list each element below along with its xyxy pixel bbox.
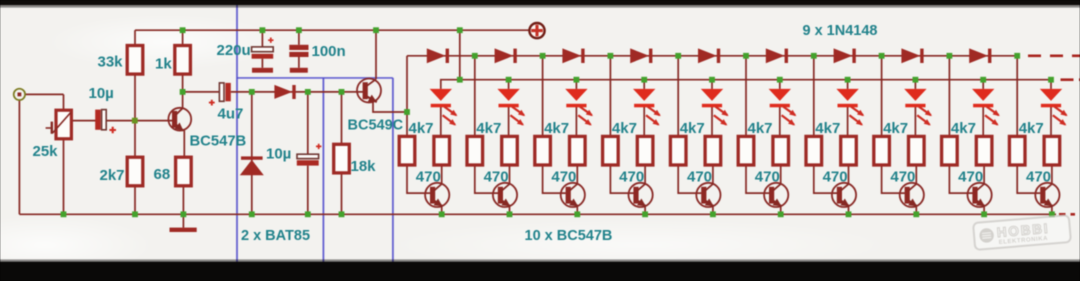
wire diode tap to R 4k7-3 [542, 56, 544, 136]
LED10 [1040, 89, 1068, 126]
junction rail 220u [260, 27, 266, 33]
svg-text:4k7: 4k7 [748, 120, 773, 137]
resistor R 470-8 [909, 136, 925, 165]
junction rail emitter 4 [642, 211, 648, 217]
svg-text:BC547B: BC547B [190, 133, 247, 149]
junction diode tap 9 [947, 53, 953, 59]
resistor R 470-10 [1044, 136, 1060, 165]
wire LED-1 cathode to R 470-1 [440, 107, 442, 137]
wire diode tap to R 4k7-10 [1016, 56, 1018, 136]
junction rail emitter 9 [981, 211, 987, 217]
ground symbol [170, 214, 197, 232]
wire R 4k7-8 to base Q8 [882, 165, 905, 193]
resistor R 470-4 [637, 136, 653, 165]
svg-text:2k7: 2k7 [100, 167, 125, 184]
svg-text:470: 470 [823, 169, 848, 186]
potentiometer 25k [46, 110, 72, 139]
junction diode tap 10 [1014, 53, 1020, 59]
resistor R 4k7-7 [806, 136, 822, 165]
bottom ground rail [19, 213, 1056, 215]
junction rail pot [61, 211, 67, 217]
junction diode tap 3 [540, 53, 546, 59]
transistor Q9 BC547B stage 7 [832, 183, 856, 207]
resistor R 4k7-10 [1009, 136, 1025, 165]
resistor R 470-9 [976, 136, 992, 165]
wire LED rail stub 2 [508, 80, 510, 89]
wire R 4k7-9 to base Q9 [949, 165, 972, 193]
svg-text:4k7: 4k7 [612, 120, 637, 137]
svg-text:4k7: 4k7 [680, 120, 705, 137]
svg-text:2 x BAT85: 2 x BAT85 [241, 228, 310, 244]
wire to C 10u-2 top [307, 92, 309, 154]
wire 33k to base node to 2k7 [134, 74, 136, 158]
junction LED rail 9 [980, 77, 986, 83]
wire 18k to rail [341, 173, 343, 214]
watermark HOBBI Elektronika [973, 215, 1071, 250]
junction LED rail 7 [845, 77, 851, 83]
wire R 470-10 to collector Q10 [1051, 165, 1053, 184]
transistor Q1 BC547B input [168, 108, 191, 131]
transistor Q7 BC547B stage 5 [696, 183, 720, 207]
svg-text:4k7: 4k7 [476, 120, 501, 137]
wire emitter Q3 to rail [576, 206, 578, 214]
wire LED-5 cathode to R 470-5 [711, 107, 713, 137]
wire R 470-1 to collector Q1 [441, 165, 443, 184]
resistor 2k7 [127, 157, 143, 186]
capacitor C 10u second [297, 144, 322, 166]
wire R 4k7-2 to base Q2 [475, 165, 498, 193]
junction emitter BC549C [404, 109, 410, 115]
transistor Q3 BC547B stage 1 [425, 183, 449, 207]
transistor Q12 BC547B stage 10 [1035, 183, 1059, 207]
capacitor C 220u [252, 38, 274, 59]
resistor 33k [127, 46, 143, 75]
resistor R 4k7-4 [603, 136, 619, 165]
svg-text:9 x 1N4148: 9 x 1N4148 [803, 23, 878, 39]
wire R 470-3 to collector Q3 [576, 165, 578, 184]
junction LED rail 10 [1048, 77, 1054, 83]
wire LED-9 cathode to R 470-9 [982, 107, 984, 137]
svg-text:BC549C: BC549C [348, 118, 404, 134]
wire R 4k7-10 to base Q10 [1017, 165, 1040, 193]
wire diode tap to R 4k7-5 [677, 56, 679, 136]
junction LED rail 4 [641, 77, 647, 83]
diode D9 1N4148 [969, 48, 991, 63]
junction LED rail 6 [777, 77, 783, 83]
svg-text:10 x BC547B: 10 x BC547B [525, 228, 613, 244]
resistor 18k [334, 144, 350, 173]
dashes LED rail continuation [1061, 78, 1080, 81]
dashes diode row continuation [1028, 54, 1080, 57]
junction rail emitter 2 [507, 211, 513, 217]
wire LED-3 cathode to R 470-3 [575, 107, 577, 137]
wire R 4k7-7 to base Q7 [814, 165, 837, 193]
bottom black bar [0, 262, 1080, 281]
wire emitter Q1 to rail [441, 206, 443, 214]
transistor Q5 BC547B stage 3 [561, 183, 585, 207]
diode D4 1N4148 [630, 48, 652, 63]
transistor U2 BC549C driver [357, 79, 381, 103]
svg-text:4k7: 4k7 [1019, 120, 1044, 137]
wire rail to C 220u [261, 30, 263, 47]
transistor Q10 BC547B stage 8 [900, 183, 924, 207]
resistor R 4k7-6 [738, 136, 754, 165]
wire LED-4 cathode to R 470-4 [643, 107, 645, 137]
junction diode tap 2 [472, 53, 478, 59]
diode D7 1N4148 [834, 48, 856, 63]
wire to R 18k [341, 92, 343, 144]
selection box line vertical right [392, 78, 394, 262]
wire LED rail stub 7 [847, 80, 849, 89]
junction 18k node [339, 89, 345, 95]
junction rail 2k7 [132, 211, 138, 217]
junction rail 100n [296, 27, 302, 33]
LED1 [430, 89, 458, 126]
wire R 4k7-4 to base Q4 [610, 165, 633, 193]
junction rail 10u2 [305, 211, 311, 217]
resistor R 4k7-1 [399, 136, 415, 165]
LED6 [769, 89, 797, 126]
wire input to pot top [25, 93, 64, 95]
LED2 [497, 89, 525, 126]
capacitor C 10u input [95, 110, 116, 134]
wire LED rail stub 9 [982, 80, 984, 89]
junction rail emitter 6 [778, 211, 784, 217]
wire R 470-9 to collector Q9 [983, 165, 985, 184]
svg-text:470: 470 [890, 169, 915, 186]
wire R 4k7-5 to base Q5 [678, 165, 701, 193]
diode chain row wire [407, 55, 1017, 57]
wire 2k7 to rail [134, 185, 136, 214]
svg-text:4k7: 4k7 [951, 120, 976, 137]
transistor Q8 BC547B stage 6 [764, 183, 788, 207]
selection box line horizontal [237, 77, 393, 79]
LED7 [836, 89, 864, 126]
selection box line vertical middle [322, 78, 324, 262]
junction rail 18k [339, 211, 345, 217]
resistor R 470-5 [705, 136, 721, 165]
resistor R 470-3 [570, 136, 586, 165]
svg-text:68: 68 [154, 166, 171, 183]
wire diode tap to R 4k7-9 [948, 56, 950, 136]
wire 10u to base BC547B [106, 120, 173, 122]
junction LED rail feed [457, 77, 463, 83]
svg-text:33k: 33k [98, 54, 124, 71]
wire LED rail stub 6 [779, 80, 781, 89]
wire input ground down [18, 100, 20, 215]
wire collector node to C 4u7 [183, 91, 220, 93]
wire emitter Q9 to rail [983, 206, 985, 214]
diode D6 1N4148 [766, 48, 788, 63]
wire C 10u-2 to rail [307, 166, 309, 215]
junction rail emitter 5 [710, 211, 716, 217]
wire pot bottom to rail [63, 139, 65, 215]
transistor Q4 BC547B stage 2 [493, 183, 517, 207]
wire rail to C 100n [298, 30, 300, 45]
wire LED-2 cathode to R 470-2 [508, 107, 510, 137]
diode D8 1N4148 [901, 48, 923, 63]
capacitor C 100n [289, 45, 308, 57]
junction LED rail 2 [506, 77, 512, 83]
resistor R 4k7-9 [942, 136, 958, 165]
LED9 [972, 89, 1000, 126]
junction diode tap 4 [608, 53, 614, 59]
svg-text:4u7: 4u7 [218, 105, 244, 122]
wire R 470-2 to collector Q2 [509, 165, 511, 184]
svg-text:1k: 1k [155, 56, 172, 73]
svg-text:4k7: 4k7 [883, 120, 908, 137]
supply terminal + [529, 23, 544, 38]
wire diode tap to R 4k7-8 [881, 56, 883, 136]
wire LED rail stub 5 [711, 80, 713, 89]
junction diode tap 7 [811, 53, 817, 59]
svg-text:470: 470 [958, 169, 983, 186]
diode D1 1N4148 [427, 48, 449, 63]
wire emitter Q4 to rail [644, 206, 646, 214]
wire R 4k7-1 to base Q1 [407, 165, 430, 193]
svg-text:470: 470 [687, 169, 712, 186]
resistor R 4k7-3 [535, 136, 551, 165]
diode D2 1N4148 [495, 48, 517, 63]
junction rail emitter 8 [913, 211, 919, 217]
diode D3 1N4148 [562, 48, 584, 63]
svg-text:25k: 25k [33, 143, 59, 160]
wire LED rail stub 4 [643, 80, 645, 89]
wire R 470-4 to collector Q4 [644, 165, 646, 184]
wire emitter Q6 to rail [780, 206, 782, 214]
junction LED rail 3 [574, 77, 580, 83]
resistor R 470-1 [434, 136, 450, 165]
LED anode rail [441, 80, 1051, 89]
svg-text:470: 470 [619, 169, 644, 186]
junction rail emitter 7 [846, 211, 852, 217]
wire R 470-7 to collector Q7 [848, 165, 850, 184]
wire pot top stub [63, 94, 65, 110]
resistor R 4k7-5 [670, 136, 686, 165]
resistor 1k [175, 46, 191, 75]
wire emitter to 68 [183, 130, 185, 158]
wire LED rail stub 8 [914, 80, 916, 89]
svg-text:470: 470 [551, 169, 576, 186]
wire diode tap to R 4k7-6 [745, 56, 747, 136]
junction BAT85 node [249, 89, 255, 95]
ground bar under C 100n [290, 68, 308, 73]
svg-text:470: 470 [1026, 169, 1051, 186]
wire BC549C emitter to node [373, 102, 407, 112]
junction rail 1k [180, 27, 186, 33]
transistor Q6 BC547B stage 4 [629, 183, 653, 207]
junction rail emitter 3 [574, 211, 580, 217]
junction rail BAT85 [249, 211, 255, 217]
wire R 4k7-6 to base Q6 [746, 165, 769, 193]
wire emitter Q10 to rail [1051, 206, 1053, 214]
junction rail LED feed [457, 27, 463, 33]
wire BAT85 branch vertical [251, 92, 253, 214]
wire diode tap to R 4k7-4 [609, 56, 611, 136]
svg-text:4k7: 4k7 [409, 120, 434, 137]
transistor Q11 BC547B stage 9 [968, 183, 992, 207]
wire 4u7 to BC549C base [231, 91, 363, 93]
svg-text:470: 470 [484, 169, 509, 186]
capacitor C 4u7 [209, 83, 231, 106]
junction rail gnd [181, 211, 187, 217]
wire emitter Q7 to rail [848, 206, 850, 214]
junction rail emitter 10 [1049, 211, 1055, 217]
input terminal [14, 89, 25, 100]
resistor R 470-2 [502, 136, 518, 165]
resistor R 470-6 [773, 136, 789, 165]
wire LED rail stub 10 [1050, 80, 1052, 89]
top supply rail [135, 29, 529, 31]
wire R 470-5 to collector Q5 [712, 165, 714, 184]
svg-text:470: 470 [755, 169, 780, 186]
selection box line vertical left [236, 4, 238, 262]
wire emitter Q8 to rail [915, 206, 917, 214]
junction base node Q1 [132, 118, 138, 124]
wire R 470-8 to collector Q8 [915, 165, 917, 184]
junction LED rail 5 [709, 77, 715, 83]
wire pot wiper to C 10u [71, 120, 96, 122]
junction 10u2 node [305, 89, 311, 95]
wire LED-6 cathode to R 470-6 [779, 107, 781, 137]
LED3 [565, 89, 593, 126]
wire emitter Q5 to rail [712, 206, 714, 214]
dashes bottom rail continuation [1059, 213, 1075, 216]
LED8 [904, 89, 932, 126]
top black bar [0, 0, 1080, 5]
wire rail to BC549C collector [375, 30, 377, 79]
wire diode tap to R 4k7-2 [474, 56, 476, 136]
wire diode row start down to 4k7-1 [406, 56, 408, 136]
wire 68 to rail [182, 185, 184, 214]
diode D5 1N4148 [698, 48, 720, 63]
svg-text:4k7: 4k7 [815, 120, 840, 137]
resistor 68 [176, 157, 192, 186]
wire C 100n to ground [298, 57, 300, 68]
resistor R 470-7 [841, 136, 857, 165]
wire supply to LED rail [459, 30, 461, 79]
svg-text:470: 470 [416, 169, 441, 186]
wire 1k to collector node [182, 74, 184, 108]
junction diode tap 8 [879, 53, 885, 59]
wire rail to 33k [134, 30, 136, 45]
junction LED rail 8 [913, 77, 919, 83]
resistor R 4k7-2 [467, 136, 483, 165]
junction collector node Q1 [180, 89, 186, 95]
junction diode tap 5 [675, 53, 681, 59]
wire emitter Q2 to rail [509, 206, 511, 214]
wire diode tap to R 4k7-7 [813, 56, 815, 136]
junction rail BC549C [373, 27, 379, 33]
wire LED-10 cathode to R 470-10 [1050, 107, 1052, 137]
resistor R 4k7-8 [874, 136, 890, 165]
svg-text:10µ: 10µ [266, 146, 291, 163]
LED4 [633, 89, 661, 126]
svg-text:220u: 220u [217, 42, 251, 59]
wire LED-8 cathode to R 470-8 [914, 107, 916, 137]
wire LED rail stub 3 [575, 80, 577, 89]
svg-text:4k7: 4k7 [544, 120, 569, 137]
svg-text:100n: 100n [312, 43, 346, 60]
junction diode tap 6 [743, 53, 749, 59]
wire R 470-6 to collector Q6 [780, 165, 782, 184]
svg-text:10µ: 10µ [89, 85, 114, 102]
diode BAT85 horizontal [274, 85, 295, 99]
LED5 [701, 89, 729, 126]
junction rail emitter 1 [439, 211, 445, 217]
wire C 220u to ground [261, 59, 263, 68]
svg-text:18k: 18k [351, 158, 377, 175]
ground bar under C 220u [252, 68, 273, 73]
wire rail to 1k [182, 30, 184, 45]
wire LED-7 cathode to R 470-7 [847, 107, 849, 137]
diode BAT85 vertical [240, 156, 264, 175]
wire R 4k7-3 to base Q3 [543, 165, 566, 193]
